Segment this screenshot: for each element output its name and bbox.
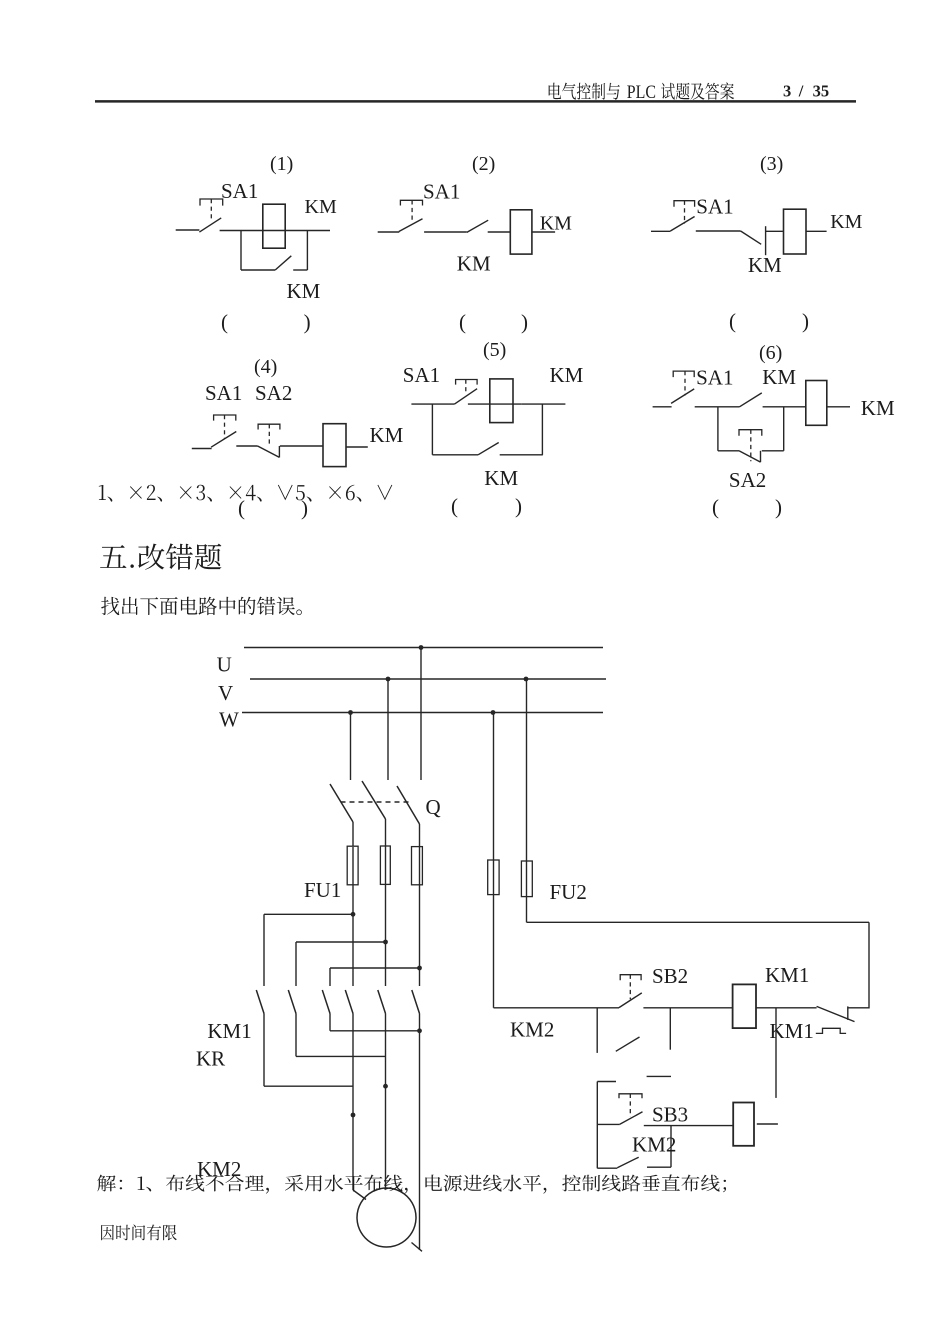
wire c5 branch right vertical (541, 404, 543, 455)
wire control right leg upper (526, 679, 528, 861)
wire c4 to coil (280, 445, 323, 447)
contact blade 3 of KM1/KM2 bank (322, 990, 330, 1014)
pushbutton SA1 c3 dashed stem (684, 201, 686, 224)
wire c6 left (653, 406, 672, 408)
wire c1 branch bottom left (241, 269, 275, 271)
wire c2 right (532, 231, 555, 233)
svg-text:SA1: SA1 (403, 363, 440, 387)
pushbutton SA1 c5 button cap (456, 380, 478, 385)
svg-text:KM: KM (861, 396, 895, 420)
power line U (244, 647, 603, 649)
wire c1 branch left vertical (240, 231, 242, 271)
junction U-line (419, 645, 424, 650)
svg-text:KM: KM (748, 253, 782, 277)
wire SB3 left stub (597, 1123, 620, 1125)
wire rejoin 3 (330, 1030, 420, 1032)
svg-text:(: ( (712, 495, 719, 519)
wire branch vertical 3 upper (329, 968, 331, 986)
wire branch vertical 2 upper (295, 942, 297, 986)
wire c6 branch bottom right (762, 450, 784, 452)
wire c4 right (346, 446, 368, 448)
svg-text:W: W (219, 708, 239, 732)
svg-text:KM1: KM1 (207, 1019, 251, 1043)
power line V (250, 678, 606, 680)
contact KM1 interlock actuator mark (816, 1028, 846, 1033)
svg-text:KM: KM (484, 466, 518, 490)
pushbutton SB2 contact blade (619, 993, 642, 1008)
pushbutton SA2 c4 contact blade (258, 446, 280, 457)
pushbutton SB3 dashed stem (629, 1094, 631, 1117)
wire V drop (387, 679, 389, 780)
switch Q blade 2 (362, 781, 386, 819)
wire main phase U lower (352, 885, 354, 986)
pushbutton SA2 c6 button cap (739, 430, 762, 436)
fuse FU2 left internal wire (493, 860, 495, 895)
switch Q coupling dashed (341, 801, 409, 803)
header title CJK part 2 (661, 83, 734, 100)
wire c5 branch left vertical (431, 404, 433, 455)
svg-text:KM2: KM2 (510, 1018, 554, 1042)
junction tap1 (351, 912, 356, 917)
contact blade 5 of KM1/KM2 bank (378, 990, 386, 1014)
wire main phase V lower (385, 884, 387, 986)
fuse FU1 phase W (412, 847, 423, 885)
coil KM c4 (323, 424, 346, 467)
pushbutton SA1 c1 button cap (200, 199, 223, 206)
answers text line (99, 485, 392, 502)
svg-text:KM1: KM1 (765, 963, 809, 987)
svg-text:(1): (1) (270, 153, 293, 175)
svg-text:KM: KM (762, 365, 796, 389)
contact KM c3 blade (741, 231, 762, 244)
svg-text:35: 35 (813, 81, 830, 100)
wire branch vertical 1 upper (263, 914, 265, 986)
pushbutton SA1 c4 contact blade (211, 432, 236, 448)
wire c6 mid (695, 406, 740, 408)
svg-text:(: ( (451, 494, 458, 518)
pushbutton SA1 c6 button cap (673, 371, 694, 377)
svg-text:SB3: SB3 (652, 1103, 688, 1127)
svg-text:KM: KM (550, 363, 584, 387)
wire U drop (420, 648, 422, 781)
pushbutton SA1 c6 dashed stem (684, 371, 686, 395)
wire KM2 aux branch left vertical (596, 1008, 598, 1053)
wire control rung left (494, 1007, 620, 1009)
wire control right leg lower (526, 897, 528, 923)
wire main V below contacts (385, 1014, 387, 1189)
wire c5 through coil (468, 403, 521, 405)
pushbutton SA2 c4 break hook (278, 446, 280, 457)
wire interlock to right leg (848, 1007, 869, 1009)
junction tap3 (417, 966, 422, 971)
problem statement (101, 597, 302, 616)
wire c1 left (176, 229, 200, 231)
wire into motor left diagonal (353, 1190, 366, 1200)
wire control left leg lower (493, 895, 495, 1008)
fuse FU2 right internal wire (526, 861, 528, 897)
svg-text:KR: KR (196, 1047, 225, 1071)
wire c4 left (192, 448, 212, 450)
wire tap 2 (296, 941, 386, 943)
coil KM c1 (263, 204, 285, 248)
junction U mid (351, 1113, 356, 1118)
pushbutton SA1 c1 contact blade (199, 218, 221, 232)
switch Q blade 3 (397, 786, 420, 824)
wire c6 branch right vertical (783, 407, 785, 451)
contact KM1 interlock blade (817, 1006, 855, 1021)
svg-text:SA1: SA1 (205, 381, 242, 405)
svg-text:KM2: KM2 (197, 1157, 241, 1181)
pushbutton SB3 contact blade (620, 1112, 643, 1125)
wire KM2 contact right vertical (670, 1126, 672, 1168)
wire SB3 branch top-right tick (647, 1075, 671, 1077)
pushbutton SB3 button cap (619, 1094, 642, 1098)
wire tap 1 (264, 913, 353, 915)
coil KM c5 (490, 379, 513, 423)
pushbutton SA1 c4 button cap (214, 415, 236, 421)
svg-text:SA1: SA1 (423, 180, 460, 204)
wire main W below contacts (419, 1014, 421, 1251)
wire c4 mid (236, 445, 257, 447)
wire c5 right (521, 403, 565, 405)
svg-text:(5): (5) (483, 339, 506, 361)
wire c3 mid (696, 230, 741, 232)
wire tap 3 (330, 967, 420, 969)
coil KM c3 (784, 209, 807, 254)
wire KM2 aux branch right vertical (669, 1008, 671, 1050)
wire branch vertical 1 lower (263, 1014, 265, 1087)
pushbutton SA1 c3 contact blade (670, 217, 694, 232)
svg-text:PLC: PLC (627, 82, 656, 102)
svg-text:Q: Q (426, 795, 441, 819)
svg-text:): ) (515, 494, 522, 518)
coil KM2 (733, 1103, 754, 1146)
wire c6 branch left vertical (717, 407, 719, 451)
wire c6 to coil (763, 406, 806, 408)
svg-text:SA2: SA2 (729, 468, 766, 492)
wire KM2 coil branch vertical (775, 1008, 777, 1098)
motor M circle (357, 1188, 416, 1247)
wire c5 left (411, 403, 454, 405)
pushbutton SA1 c5 contact blade (455, 389, 478, 404)
wire c3 right (806, 230, 827, 232)
junction W-line main (348, 710, 353, 715)
pushbutton SA2 c4 button cap (258, 424, 280, 429)
pushbutton SA1 c2 button cap (400, 200, 422, 205)
fuse FU2 left (488, 860, 499, 895)
svg-text:/: / (798, 81, 804, 100)
contact KM2 latch blade (617, 1157, 638, 1168)
wire c2 mid (424, 231, 467, 233)
svg-text:SB2: SB2 (652, 964, 688, 988)
wire c2 left (378, 231, 400, 233)
pushbutton SA2 c6 break hook (760, 451, 762, 462)
wire SB3 branch top-left corner (597, 1081, 616, 1083)
wire main phase W lower (419, 885, 421, 986)
wire Q3 to FU1c (419, 824, 421, 847)
header rule (95, 100, 856, 103)
svg-text:(6): (6) (759, 342, 782, 364)
wire SB3 branch left vertical (596, 1082, 598, 1169)
svg-text:(3): (3) (760, 153, 783, 175)
fuse FU1b internal wire (385, 846, 387, 884)
pushbutton SA1 c1 dashed stem (210, 199, 212, 221)
junction tap2 (383, 940, 388, 945)
wire branch vertical 2 lower (295, 1014, 297, 1057)
svg-text:(2): (2) (472, 153, 495, 175)
pushbutton SA2 c4 dashed stem (268, 424, 270, 446)
svg-text:KM: KM (370, 423, 404, 447)
wire control rung right (756, 1007, 817, 1009)
wire c5 branch bottom right (500, 454, 543, 456)
wire c5 branch bottom left (432, 454, 478, 456)
contact KM c2 blade (467, 220, 488, 232)
wire main U below contacts (352, 1014, 354, 1191)
svg-text:3: 3 (783, 81, 791, 100)
switch Q blade 1 (330, 784, 353, 822)
wire c6 branch bottom left (718, 450, 739, 452)
wire rejoin 1 (264, 1085, 353, 1087)
contact KM c6 blade (740, 393, 762, 407)
pushbutton SA2 c6 contact blade (739, 451, 761, 462)
svg-text:KM2: KM2 (632, 1133, 676, 1157)
wire c3 to coil (766, 230, 783, 232)
junction W-line control (491, 710, 496, 715)
svg-text:): ) (304, 310, 311, 334)
header title CJK part 1 (549, 83, 620, 100)
svg-text:SA2: SA2 (255, 381, 292, 405)
wire c6 right (827, 406, 850, 408)
svg-text:KM: KM (305, 196, 337, 218)
section heading 五.改错题 (100, 543, 221, 569)
pushbutton SA1 c3 button cap (674, 201, 695, 207)
motor lead diagonal tick (412, 1243, 423, 1252)
svg-text:SA1: SA1 (696, 195, 733, 219)
svg-text:(: ( (729, 309, 736, 333)
power line W (242, 712, 603, 714)
pushbutton SA1 c2 dashed stem (411, 200, 413, 222)
fuse FU1 phase U (347, 846, 358, 885)
wire c1 main (220, 230, 330, 232)
svg-text:SA1: SA1 (696, 366, 733, 390)
wire branch vertical 3 lower (329, 1014, 331, 1031)
coil KM1 (733, 984, 756, 1028)
wire rejoin 2 (296, 1055, 386, 1057)
fuse FU1c internal wire (419, 847, 421, 885)
contact blade 1 of KM1/KM2 bank (256, 990, 264, 1014)
junction V-line control (524, 677, 529, 682)
svg-text:): ) (775, 495, 782, 519)
fuse FU1a internal wire (352, 847, 354, 885)
fuse FU1 phase V (380, 846, 390, 884)
svg-text:(: ( (459, 310, 466, 334)
solution text line (97, 1175, 726, 1194)
wire control rung mid (643, 1007, 732, 1009)
junction V mid (383, 1084, 388, 1089)
wire KM2 latch bottom left (597, 1167, 617, 1169)
wire KM2 latch bottom right (647, 1166, 671, 1168)
wire control top horizontal (527, 921, 870, 923)
contact blade 6 of KM1/KM2 bank (412, 990, 420, 1014)
svg-text:FU2: FU2 (550, 880, 587, 904)
pushbutton SB2 button cap (620, 975, 641, 981)
pushbutton SA1 c5 dashed stem (465, 380, 467, 394)
svg-text:FU1: FU1 (304, 878, 341, 902)
contact blade 4 of KM1/KM2 bank (345, 990, 353, 1014)
contact KM c3 bar (765, 226, 767, 255)
contact KM2 aux blade (616, 1037, 640, 1051)
wire SB3 to KM2 coil (644, 1125, 733, 1127)
wire Q1 to FU1a (352, 822, 354, 847)
wire c1 branch right vertical (306, 231, 308, 271)
svg-text:KM: KM (287, 279, 321, 303)
wire c1 branch bottom right (293, 269, 307, 271)
pushbutton SA2 c6 dashed stem (750, 430, 752, 462)
svg-text:): ) (521, 310, 528, 334)
pushbutton SA1 c2 contact blade (399, 219, 423, 232)
wire control left leg upper (493, 713, 495, 861)
footer note (101, 1224, 177, 1240)
wire W drop (350, 713, 352, 781)
svg-text:KM: KM (830, 211, 862, 233)
pushbutton SA1 c6 contact blade (671, 389, 694, 404)
coil KM c2 (510, 210, 532, 254)
junction rejoin 3 (417, 1028, 422, 1033)
svg-text:(: ( (238, 496, 245, 520)
svg-text:V: V (218, 681, 233, 705)
pushbutton SA1 c4 dashed stem (224, 415, 226, 439)
wire c3 left (651, 230, 670, 232)
wire KM2 coil right stub (757, 1123, 778, 1125)
pushbutton SB2 dashed stem (629, 975, 631, 1000)
svg-text:(4): (4) (254, 356, 277, 378)
wire Q2 to FU1b (385, 819, 387, 846)
fuse FU2 right (521, 861, 532, 897)
junction V-line main (386, 677, 391, 682)
svg-text:(: ( (221, 310, 228, 334)
contact KM c5 aux blade (478, 443, 499, 455)
coil KM c6 (806, 381, 827, 426)
wire c2 to coil (488, 231, 510, 233)
contact KM c1 aux blade (275, 256, 291, 270)
svg-text:SA1: SA1 (221, 179, 258, 203)
svg-text:): ) (802, 309, 809, 333)
contact KM1 interlock bar (847, 1006, 849, 1020)
wire control right vertical (868, 922, 870, 1008)
svg-text:KM: KM (457, 252, 491, 276)
svg-text:U: U (217, 653, 232, 677)
contact blade 2 of KM1/KM2 bank (288, 990, 296, 1014)
svg-text:KM: KM (540, 213, 572, 235)
